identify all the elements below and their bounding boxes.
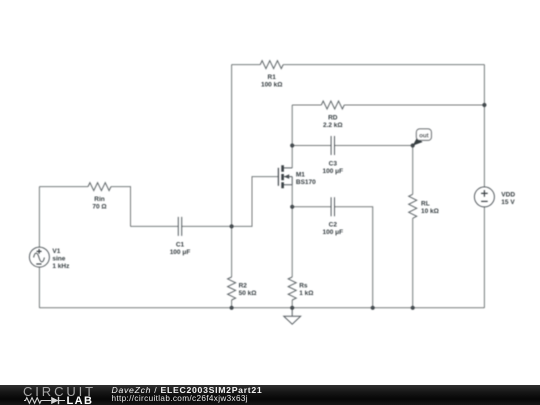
wire Rin to corner [111, 187, 131, 227]
wire C2 right lead and down leg [335, 207, 373, 308]
node junction C1-gate [230, 224, 234, 228]
svg-text:15 V: 15 V [501, 199, 515, 206]
node junction C2leg-ground rail [371, 306, 375, 310]
credit line [112, 386, 263, 395]
node junction R2-ground rail [230, 306, 234, 310]
wire R2 top lead [231, 226, 233, 277]
resistor R2 [228, 277, 236, 300]
wire C2 left lead [292, 206, 331, 208]
resistor Rs [288, 277, 296, 300]
source V1 plus [37, 249, 42, 254]
wire right rail top [483, 65, 485, 187]
source VDD plus [481, 190, 488, 197]
source V1 sine [34, 253, 45, 262]
svg-text:100 μF: 100 μF [170, 249, 191, 256]
source V1 circle [29, 247, 49, 267]
wire C3 left lead [292, 145, 331, 147]
svg-text:10 kΩ: 10 kΩ [421, 208, 439, 215]
footer bar [0, 385, 540, 405]
wire source vertical [291, 185, 293, 277]
logo LAB word [67, 397, 94, 405]
svg-text:V1: V1 [52, 248, 60, 255]
node junction RD-right rail [482, 103, 486, 107]
svg-text:70 Ω: 70 Ω [92, 204, 106, 211]
svg-text:100 μF: 100 μF [322, 168, 343, 175]
transistor M1 arrow head [284, 174, 289, 179]
transistor M1 channel segments [281, 165, 284, 188]
svg-text:M1: M1 [296, 171, 305, 178]
capacitor C3 [331, 136, 334, 155]
url line [112, 395, 248, 403]
wire V1 top lead [38, 187, 40, 248]
svg-text:C2: C2 [329, 221, 338, 228]
node junction Rs-ground rail [290, 306, 294, 310]
svg-text:BS170: BS170 [296, 179, 316, 186]
wire bottom rail [39, 307, 484, 309]
svg-text:C1: C1 [176, 242, 185, 249]
svg-text:RD: RD [328, 115, 338, 122]
svg-text:VDD: VDD [501, 192, 515, 199]
wire C3 right lead [335, 145, 413, 147]
wire input top [39, 186, 88, 188]
source V1 minus [36, 263, 41, 265]
wire top rail right of R1 [283, 64, 484, 66]
wire V1 bottom lead [38, 267, 40, 308]
wire C1 left lead [131, 225, 179, 227]
capacitor C1 [178, 217, 181, 236]
svg-text:sine: sine [52, 255, 65, 262]
ground [284, 308, 301, 324]
node out junction [411, 143, 415, 147]
logo resistor-diode glyph [24, 396, 66, 405]
wire C1 right lead [182, 225, 232, 227]
wire left vertical (gate bias column) [231, 65, 233, 227]
svg-text:2.2 kΩ: 2.2 kΩ [323, 122, 343, 129]
node junction RL-ground rail [411, 306, 415, 310]
wire R2 bottom lead [231, 300, 233, 308]
svg-text:R1: R1 [268, 74, 277, 81]
transistor M1 body line [284, 176, 292, 178]
node out flag box [416, 129, 431, 140]
resistor Rin [88, 183, 111, 191]
wire RL top lead [412, 146, 414, 195]
svg-text:out: out [419, 132, 429, 139]
wire top rail left of R1 [232, 64, 261, 66]
wire drain vertical [291, 105, 293, 168]
wire RL bottom lead [412, 218, 414, 307]
transistor M1 gate bar [277, 168, 279, 186]
svg-text:Rs: Rs [299, 282, 308, 289]
node junction source-C2 [290, 205, 294, 209]
wire RD left lead [292, 104, 321, 106]
svg-text:C3: C3 [329, 161, 338, 168]
source VDD minus [481, 200, 488, 202]
transistor M1 source lead [283, 177, 293, 185]
svg-text:100 kΩ: 100 kΩ [261, 82, 282, 89]
wire Rs bottom lead [291, 300, 293, 308]
capacitor C2 [331, 197, 334, 216]
svg-text:100 μF: 100 μF [322, 229, 343, 236]
wire RD right lead [344, 104, 484, 106]
wire gate from bias node [232, 177, 279, 227]
source VDD circle [474, 187, 494, 207]
svg-text:1 kHz: 1 kHz [52, 263, 70, 270]
logo CIRCUIT word [23, 387, 96, 396]
svg-text:R2: R2 [239, 282, 248, 289]
resistor RL [409, 194, 417, 218]
svg-text:Rin: Rin [94, 196, 105, 203]
svg-text:RL: RL [421, 200, 430, 207]
svg-text:50 kΩ: 50 kΩ [239, 290, 257, 297]
node out flag pointer [413, 138, 423, 146]
resistor R1 [260, 61, 283, 69]
transistor M1 drain lead [283, 167, 293, 169]
resistor RD [321, 101, 344, 109]
svg-text:1 kΩ: 1 kΩ [299, 290, 313, 297]
node junction drain-C3 [290, 143, 294, 147]
wire VDD bottom lead [483, 207, 485, 308]
